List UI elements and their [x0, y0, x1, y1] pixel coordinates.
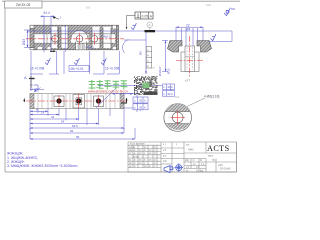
- svg-text:45#C: 45#C: [188, 149, 194, 152]
- svg-text:3. M6ЩЖЖЖ. ЖЖЖ3.3020mm~3.3025m: 3. M6ЩЖЖЖ. ЖЖЖ3.3020mm~3.3025mm,: [7, 164, 78, 168]
- svg-text:A: A: [149, 23, 151, 27]
- svg-text:tymc:: tymc:: [208, 155, 214, 158]
- svg-text:ЖЖЩЖ: ЖЖЩЖ: [7, 151, 23, 156]
- svg-text:±77: ±77: [185, 79, 190, 83]
- svg-text:A: A: [144, 99, 146, 103]
- svg-text:SD-01x43: SD-01x43: [220, 168, 231, 171]
- svg-text:jdbj: jdbj: [184, 159, 189, 162]
- svg-text:7.4±0.1: 7.4±0.1: [85, 46, 95, 50]
- svg-text:ACTS: ACTS: [207, 144, 230, 153]
- svg-text:bzh: bzh: [163, 160, 168, 163]
- svg-text:2W-5X-08: 2W-5X-08: [16, 3, 31, 7]
- svg-text:1.4±0.1: 1.4±0.1: [101, 34, 111, 38]
- svg-text:Ø22: Ø22: [167, 68, 171, 74]
- svg-text:34: 34: [51, 115, 55, 119]
- svg-text:Ø4: Ø4: [186, 28, 190, 32]
- svg-text:8.8: 8.8: [86, 6, 91, 10]
- svg-text:4-Ø6(3.18): 4-Ø6(3.18): [204, 95, 219, 99]
- svg-text:A: A: [171, 92, 173, 96]
- svg-text:9.9: 9.9: [175, 95, 179, 99]
- svg-text:84: 84: [70, 129, 74, 133]
- svg-text:16 +0.008: 16 +0.008: [105, 67, 119, 71]
- svg-text:Ø13: Ø13: [22, 39, 26, 45]
- svg-text:www.elecfans.com dz-fsy.cn: www.elecfans.com dz-fsy.cn: [88, 89, 128, 93]
- svg-text:14: 14: [41, 111, 45, 115]
- svg-text:A: A: [171, 85, 173, 89]
- svg-text:tydh:: tydh:: [218, 164, 224, 167]
- svg-text:A: A: [144, 105, 146, 109]
- svg-text:.05: .05: [139, 105, 143, 109]
- svg-text:Ø6: Ø6: [139, 51, 143, 55]
- svg-text:5±.4: 5±.4: [44, 11, 50, 15]
- svg-text:0.05: 0.05: [142, 15, 149, 19]
- svg-text:0.45kg: 0.45kg: [196, 169, 204, 172]
- svg-text:Ø6 +0.01: Ø6 +0.01: [71, 67, 84, 71]
- svg-text:A: A: [24, 75, 27, 80]
- svg-text:10a: 10a: [206, 3, 211, 7]
- svg-text:84.5: 84.5: [72, 124, 78, 128]
- svg-text:.05: .05: [139, 99, 143, 103]
- svg-text:54: 54: [61, 120, 65, 124]
- svg-text:mc:: mc:: [186, 144, 190, 147]
- svg-text:95: 95: [76, 135, 80, 139]
- svg-text:Ø30H7: Ø30H7: [158, 66, 162, 76]
- svg-text:16 +0.008: 16 +0.008: [30, 67, 44, 71]
